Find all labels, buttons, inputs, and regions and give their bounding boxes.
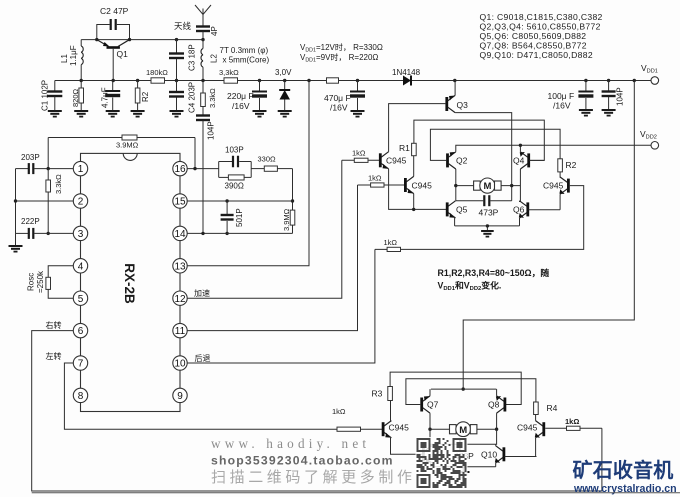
ground: 220uF (253, 111, 267, 117)
svg-text:M: M (483, 181, 491, 192)
svg-text:16: 16 (174, 164, 186, 175)
svg-text:2: 2 (78, 197, 84, 208)
capacitor 473P (motor2 snubber) (430, 429, 497, 461)
capacitor 4P (antenna) (196, 25, 219, 39)
svg-text:220μ F: 220μ F (227, 91, 254, 101)
wire: Q2 collector to VDD2 rail (456, 145, 651, 152)
wire: pin 7 down to bridge2 left 1k (64, 363, 383, 429)
wire: C945#3 emitter to Q6 base (559, 194, 561, 210)
svg-text:5: 5 (78, 294, 84, 305)
wire: pin 15 net (187, 200, 292, 202)
ground: bridge2 (462, 467, 464, 472)
svg-text:1.1μF: 1.1μF (69, 45, 78, 66)
node VDD2 terminal (651, 142, 659, 150)
svg-text:Q7,Q8: B564,C8550,B772: Q7,Q8: B564,C8550,B772 (480, 41, 587, 51)
junction: Q3 emitter at rail (453, 79, 456, 82)
junction: C945 emitters (412, 208, 415, 211)
wire: Q9 emitter (430, 463, 432, 467)
wire: Q1 collector line (81, 39, 203, 41)
wire: 104P to pin 14 (202, 121, 204, 234)
svg-text:/16V: /16V (232, 101, 250, 111)
transistor Q3 (445, 95, 455, 112)
wire: 3.9M to pin1 node (47, 138, 49, 169)
ground: zener (278, 111, 292, 117)
junction: motor2 right (495, 428, 498, 431)
resistor 330ohm (251, 155, 292, 172)
svg-text:/16V: /16V (553, 101, 571, 111)
wire: Q4 emitter / motor1 right column (519, 169, 521, 202)
label: transistor types list (480, 12, 603, 60)
svg-text:右转: 右转 (46, 320, 62, 330)
svg-text:Q4: Q4 (513, 156, 525, 166)
wire: bridge1 ground rail (455, 225, 520, 227)
transistor C945 #3 (reverse drive) (559, 177, 569, 194)
svg-text:C945: C945 (543, 181, 564, 191)
svg-text:Q9,Q10: D471,C8050,D882: Q9,Q10: D471,C8050,D882 (480, 50, 593, 60)
wire: Q9 collector (430, 444, 432, 446)
capacitor 100uF/16V (548, 79, 594, 111)
svg-text:15: 15 (174, 197, 186, 208)
ground: bridge1 (486, 226, 488, 231)
ground: left network (15, 233, 17, 246)
junction: C2 left (95, 38, 98, 41)
junction: bridge1 gnd (486, 224, 489, 227)
capacitor C4 203P (169, 79, 197, 113)
resistor R4 (534, 402, 558, 415)
svg-text:14: 14 (174, 229, 186, 240)
svg-text:470μ F: 470μ F (324, 93, 351, 103)
wire: Q10 base stub (505, 456, 537, 458)
svg-text:3.3kΩ: 3.3kΩ (54, 174, 63, 194)
resistor R1 (399, 143, 416, 176)
junction: C2 right (128, 38, 131, 41)
svg-text:1kΩ: 1kΩ (332, 407, 346, 416)
IC U1 pins 16-9 (173, 161, 187, 175)
transistor Q9 (422, 446, 432, 463)
junction: 220uF top (258, 79, 261, 82)
svg-text:7T 0.3mm (φ): 7T 0.3mm (φ) (220, 46, 269, 55)
svg-text:RX-2B: RX-2B (122, 263, 137, 304)
resistor 1kohm #3 (pin10 drive) (384, 238, 401, 252)
resistor 3.9M (pin1-pin16 feedback) (48, 135, 195, 169)
junction: pin1/3.3k/3.9M node (47, 167, 50, 170)
capacitor 220uF/16V (227, 79, 267, 111)
svg-text:=250k: =250k (36, 270, 45, 293)
junction: 100uF top (584, 79, 587, 82)
wire: Q7 base to R4 (inner loop) (406, 379, 536, 405)
junction: R2 top (136, 79, 139, 82)
resistor R2 (bias) (135, 79, 150, 111)
svg-text:Q1: C9018,C1815,C380,C382: Q1: C9018,C1815,C380,C382 (480, 12, 603, 22)
svg-text:4.7μF: 4.7μF (101, 87, 110, 108)
svg-text:Q8: Q8 (488, 400, 500, 410)
svg-text:C4 203P: C4 203P (188, 82, 197, 113)
svg-text:1kΩ: 1kΩ (565, 417, 579, 426)
capacitor C3 18P (169, 38, 197, 81)
wire: C945#4 collector to R3 (390, 401, 392, 421)
svg-text:4P: 4P (210, 26, 219, 36)
capacitor 501P (pin15-pin14) (221, 199, 244, 235)
svg-text:Rosc: Rosc (27, 273, 36, 291)
antenna (174, 5, 211, 31)
svg-text:R1,R2,R3,R4=80~150Ω，随: R1,R2,R3,R4=80~150Ω，随 (438, 267, 550, 278)
junction: motor2 left (428, 428, 431, 431)
ground: 100uF (579, 110, 593, 116)
wire: pin 10 to 1k #3 (187, 249, 375, 363)
svg-text:1kΩ: 1kΩ (384, 238, 398, 247)
wire: pin 11 to 1k #2 (187, 185, 357, 331)
wire: Q2 base (net B) to R2 top (430, 129, 560, 160)
svg-text:13: 13 (174, 261, 186, 272)
ground: 470uF (351, 111, 365, 117)
svg-text:104P: 104P (207, 121, 216, 140)
svg-text:Q3: Q3 (457, 100, 469, 110)
svg-text:C945: C945 (517, 423, 538, 433)
svg-text:扫描二维码了解更多制作: 扫描二维码了解更多制作 (211, 469, 416, 486)
svg-text:Q2: Q2 (456, 156, 468, 166)
svg-text:C945: C945 (412, 181, 433, 191)
capacitor 470uF/16V (324, 79, 365, 113)
wire: Q5 emitter to bridge1 ground rail (454, 218, 456, 226)
junction: motor1 left (454, 184, 457, 187)
svg-text:VDD1​和VDD2​变化.: VDD1​和VDD2​变化. (438, 280, 502, 293)
junction: Q4 at VDD2 wire (519, 144, 522, 147)
transistor Q1 (97, 40, 130, 81)
svg-text:390Ω: 390Ω (225, 182, 244, 191)
resistor 3.9M (vertical, to pin 13 node) (282, 169, 295, 234)
svg-text:1kΩ: 1kΩ (368, 174, 382, 183)
svg-text:Q6: Q6 (513, 205, 525, 215)
QR code (416, 437, 468, 489)
svg-text:820Ω: 820Ω (71, 88, 80, 107)
wire: Q7 collector to motor2 left (429, 413, 431, 429)
wire: Q4 collector to VDD2 (519, 145, 521, 152)
svg-text:6: 6 (78, 326, 84, 337)
wire: C945#1 emitter to Q5 base rail (389, 169, 448, 210)
svg-text:C3 18P: C3 18P (188, 44, 197, 71)
svg-text:C2 47P: C2 47P (100, 6, 129, 16)
capacitor C2 47P (97, 6, 130, 40)
transistor Q8 (496, 396, 506, 413)
ground: 820ohm (74, 111, 88, 117)
svg-text:203P: 203P (21, 153, 40, 162)
ground: R2 (131, 111, 145, 117)
svg-text:3.9MΩ: 3.9MΩ (282, 208, 291, 231)
svg-text:8: 8 (78, 391, 84, 402)
junction: antenna/L2 node (201, 38, 204, 41)
wire: C945#2 emitter junction (413, 194, 415, 210)
svg-text:501P: 501P (235, 208, 244, 227)
wire: C945#1 collector to Q3 base (389, 104, 446, 152)
svg-text:C1 102P: C1 102P (41, 80, 50, 111)
wire: Q6 collector (519, 201, 521, 202)
IC U1 RX-2B body (81, 153, 181, 411)
transistor Q6 (519, 201, 529, 218)
capacitor 4.7uF (101, 79, 121, 111)
junction: 470uF top (356, 79, 359, 82)
ground: 4.7uF (106, 111, 120, 117)
logo: crystalradio (573, 458, 677, 495)
wire: R3 top to Q8 base (outer loop) (390, 372, 521, 404)
capacitor 103P with 390ohm parallel network (219, 146, 252, 191)
svg-text:www. haodiy. net: www. haodiy. net (211, 436, 370, 451)
svg-text:shop35392304.taobao.com: shop35392304.taobao.com (211, 454, 394, 468)
svg-text:L1: L1 (60, 54, 69, 63)
resistor R2 (bridge1) (558, 159, 577, 178)
capacitor C1 102P (41, 80, 63, 111)
resistor R3 (372, 387, 393, 401)
svg-text:Q10: Q10 (481, 450, 497, 460)
svg-text:3: 3 (78, 229, 84, 240)
junction: bridge2 power feed (462, 387, 465, 390)
ground: C1 (48, 111, 62, 117)
svg-text:473P: 473P (479, 208, 499, 218)
svg-text:9: 9 (177, 391, 183, 402)
svg-text:3.9MΩ: 3.9MΩ (116, 141, 139, 150)
wire: C945#4 emitter to Q9 base (391, 438, 423, 455)
svg-text:C945: C945 (389, 423, 410, 433)
wire: Q3 emitter (454, 81, 456, 96)
svg-text:L2: L2 (210, 54, 219, 63)
junction: motor1 right (510, 184, 513, 187)
wire: C945#5 emitter to Q10 base (535, 438, 537, 457)
svg-text:C945: C945 (386, 156, 407, 166)
junction: Q1 base at rail (112, 79, 115, 82)
wire: ground bus (left) (15, 169, 17, 234)
svg-text:VDD1​=12V时， R=330Ω: VDD1​=12V时， R=330Ω (300, 42, 383, 54)
inductor L1 1.1uF (60, 40, 83, 81)
capacitor 104P (coupling to pin14) (196, 107, 216, 234)
ground: C4 (170, 111, 184, 117)
wire: bridge2 emitter rail (431, 388, 497, 390)
svg-text:左转: 左转 (46, 351, 62, 361)
svg-text:1N4148: 1N4148 (392, 68, 421, 77)
IC U1 pins 1-8 (73, 161, 87, 175)
svg-text:Q5,Q6: C8050,5609,D882: Q5,Q6: C8050,5609,D882 (480, 31, 587, 41)
junction: C3 top (175, 38, 178, 41)
wire: Q10 emitter (495, 463, 497, 467)
junction: 501P top (225, 199, 228, 202)
svg-text:3.3kΩ: 3.3kΩ (208, 88, 217, 108)
svg-text:R2: R2 (566, 160, 577, 170)
motor M1 (456, 178, 521, 193)
wire: pin 6 down-and-around to bridge2 right 1k (32, 331, 602, 491)
wire: pin 2 to ground bus (14, 199, 74, 202)
watermark: haodiy (211, 436, 416, 486)
svg-text:330Ω: 330Ω (258, 155, 277, 164)
svg-text:11: 11 (175, 326, 186, 337)
junction: zener top (283, 79, 286, 82)
capacitor 222P (16, 217, 74, 239)
wire: C945#3 base to 1k #3 (375, 186, 584, 250)
svg-text:4: 4 (78, 261, 84, 272)
svg-text:Q5: Q5 (456, 205, 468, 215)
junction: bridge2 gnd (462, 465, 465, 468)
svg-text:R4: R4 (547, 403, 558, 413)
transistor C945 #5 (bridge2 right) (535, 421, 545, 438)
resistor 1kohm #2 (pin11 drive) (358, 174, 406, 188)
svg-text:加速: 加速 (194, 288, 210, 298)
svg-text:VDD2​: VDD2​ (640, 129, 657, 141)
resistor 1kohm #5 (pin7 drive) (332, 407, 361, 431)
wire: VDD1 feed down to bridge 2 (463, 79, 636, 389)
junction: 104P line to pin14 (201, 232, 204, 235)
svg-text:M: M (459, 425, 467, 436)
svg-text:3,0V: 3,0V (275, 68, 292, 77)
wire: 3.9M to pin16 node (194, 138, 196, 169)
diode 1N4148 (392, 68, 421, 86)
svg-text:104P: 104P (616, 87, 625, 106)
wire: pin 13 to 3.0V rail (187, 79, 310, 266)
wire: Q3 collector to motor1 right node (455, 113, 512, 201)
diode zener 3.0V (279, 79, 290, 111)
svg-text:VDD1​: VDD1​ (641, 63, 658, 75)
wire: Q6 base stub (529, 209, 561, 211)
svg-text:Q1: Q1 (117, 49, 129, 59)
svg-text:天线: 天线 (174, 21, 192, 31)
svg-text:12: 12 (174, 294, 186, 305)
wire: Q10 collector (495, 444, 497, 446)
transistor Q2 (446, 152, 456, 169)
transistor Q7 (420, 396, 430, 413)
svg-text:1: 1 (78, 164, 84, 175)
junction: L2 bottom (201, 79, 204, 82)
svg-text:R2: R2 (141, 91, 150, 102)
junction: 104P top (607, 79, 610, 82)
wire: pin 14 net (187, 232, 292, 235)
inductor L2 (201, 38, 219, 81)
svg-text:Q2,Q3,Q4: 5610,C8550,B772: Q2,Q3,Q4: 5610,C8550,B772 (480, 22, 601, 32)
wire: C945#5 collector to R4 (535, 415, 537, 421)
wire: Q5 collector (454, 200, 456, 202)
svg-text:/16V: /16V (330, 103, 348, 113)
wire: R1 top to Q4 base (net A) (414, 120, 544, 160)
wire: Q7 emitter (429, 389, 431, 396)
capacitor 203P (16, 153, 74, 174)
svg-text:矿石收音机: 矿石收音机 (573, 458, 674, 482)
motor M2 (430, 422, 497, 437)
svg-text:x 5mm(Core): x 5mm(Core) (223, 56, 270, 65)
svg-text:Q7: Q7 (427, 400, 439, 410)
resistor 3.3kohm (pin1-pin3) (46, 169, 63, 235)
junction: 330 net at pin15 wire (291, 199, 294, 202)
wire: Q2 emitter / motor1 left column (455, 169, 457, 201)
junction: L1 bottom (80, 79, 83, 82)
junction: 501P bottom (225, 232, 228, 235)
junction: 3.3k to pin3 wire (47, 232, 50, 235)
wire: Q8 collector to motor2 right (496, 413, 498, 429)
transistor C945 #2 (404, 176, 414, 193)
svg-text:7: 7 (78, 359, 84, 370)
wire: Q6 emitter (519, 218, 521, 226)
junction: 3.9M at pin16 (193, 167, 196, 170)
wire: main 3.0V/VDD1 rail (55, 80, 651, 82)
capacitor 473P (motor1 snubber) (456, 195, 512, 217)
transistor C945 #1 (379, 152, 389, 169)
wire: bridge2 ground rail (431, 466, 496, 468)
resistor 1kohm #4 (pin6 drive) (545, 417, 602, 430)
svg-text:R3: R3 (372, 389, 383, 399)
svg-text:103P: 103P (225, 146, 244, 155)
node VDD1 terminal (651, 77, 659, 85)
ground: 104P VDD1 (602, 110, 616, 116)
wire: Q4 base stub (529, 159, 544, 161)
label: R1-R4 selection note (438, 267, 550, 292)
resistor 180kohm (151, 78, 165, 83)
wire: pin 12 to 1k #1 (187, 160, 342, 298)
resistor 3.3kohm (antenna line) (201, 79, 217, 108)
junction: C4 top (175, 79, 178, 82)
resistor R (330/220 ohm) (327, 78, 339, 83)
wire: pin 16 net (187, 167, 219, 170)
svg-text:VDD1​=9V时， R=220Ω: VDD1​=9V时， R=220Ω (300, 52, 378, 64)
svg-text:1kΩ: 1kΩ (352, 149, 366, 158)
transistor C945 #4 (bridge2 left) (382, 421, 392, 438)
resistor 820ohm (71, 79, 84, 111)
transistor Q5 (446, 201, 456, 218)
capacitor 104P (VDD1) (602, 79, 625, 110)
svg-text:10: 10 (174, 359, 186, 370)
transistor Q4 (520, 152, 530, 169)
wire: bottom border line (32, 492, 680, 494)
svg-text:100μ F: 100μ F (548, 91, 575, 101)
junction: pin2 gnd (14, 199, 17, 202)
svg-text:222P: 222P (21, 217, 40, 226)
transistor Q10 (495, 446, 505, 463)
resistor Rosc 250k (pin4-pin5) (27, 266, 74, 298)
svg-text:后退: 后退 (195, 353, 211, 363)
svg-text:180kΩ: 180kΩ (146, 68, 168, 77)
svg-text:R1: R1 (399, 143, 410, 153)
resistor 1kohm #1 (pin12 drive) (342, 149, 381, 163)
wire: Q8 emitter (496, 389, 498, 396)
svg-text:3,3kΩ: 3,3kΩ (219, 68, 239, 77)
resistor 3.3kohm (horizontal on rail) (224, 78, 238, 83)
